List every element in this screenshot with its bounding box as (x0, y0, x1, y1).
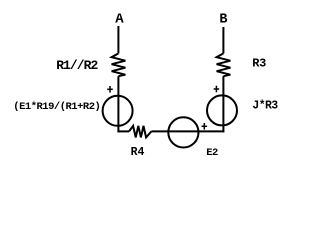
resistor R4 (129, 126, 151, 137)
source E2 circle (168, 117, 198, 147)
wire A to R1//R2 (117, 26, 119, 53)
source V1 circle (103, 96, 133, 126)
svg-text:R3: R3 (252, 57, 266, 71)
plus sign of source J (214, 86, 220, 93)
bottom wire right segment (151, 130, 224, 132)
svg-text:E2: E2 (206, 147, 218, 159)
source J circle (207, 95, 237, 125)
svg-text:R1//R2: R1//R2 (56, 58, 98, 73)
resistor R3 (217, 53, 231, 76)
svg-text:B: B (219, 12, 227, 27)
resistor R1//R2 (112, 53, 126, 76)
wire R3 to bottom corner (222, 76, 224, 132)
svg-text:A: A (115, 11, 124, 27)
wire R1//R2 to bottom corner (117, 76, 119, 132)
plus sign of source V1 (107, 86, 113, 93)
svg-text:(E1*R19/(R1+R2): (E1*R19/(R1+R2) (13, 101, 100, 113)
wire B to R3 (222, 27, 224, 53)
svg-text:J*R3: J*R3 (252, 100, 278, 113)
plus sign of source E2 (202, 123, 208, 130)
bottom wire left segment (118, 130, 130, 132)
svg-text:R4: R4 (131, 146, 145, 159)
